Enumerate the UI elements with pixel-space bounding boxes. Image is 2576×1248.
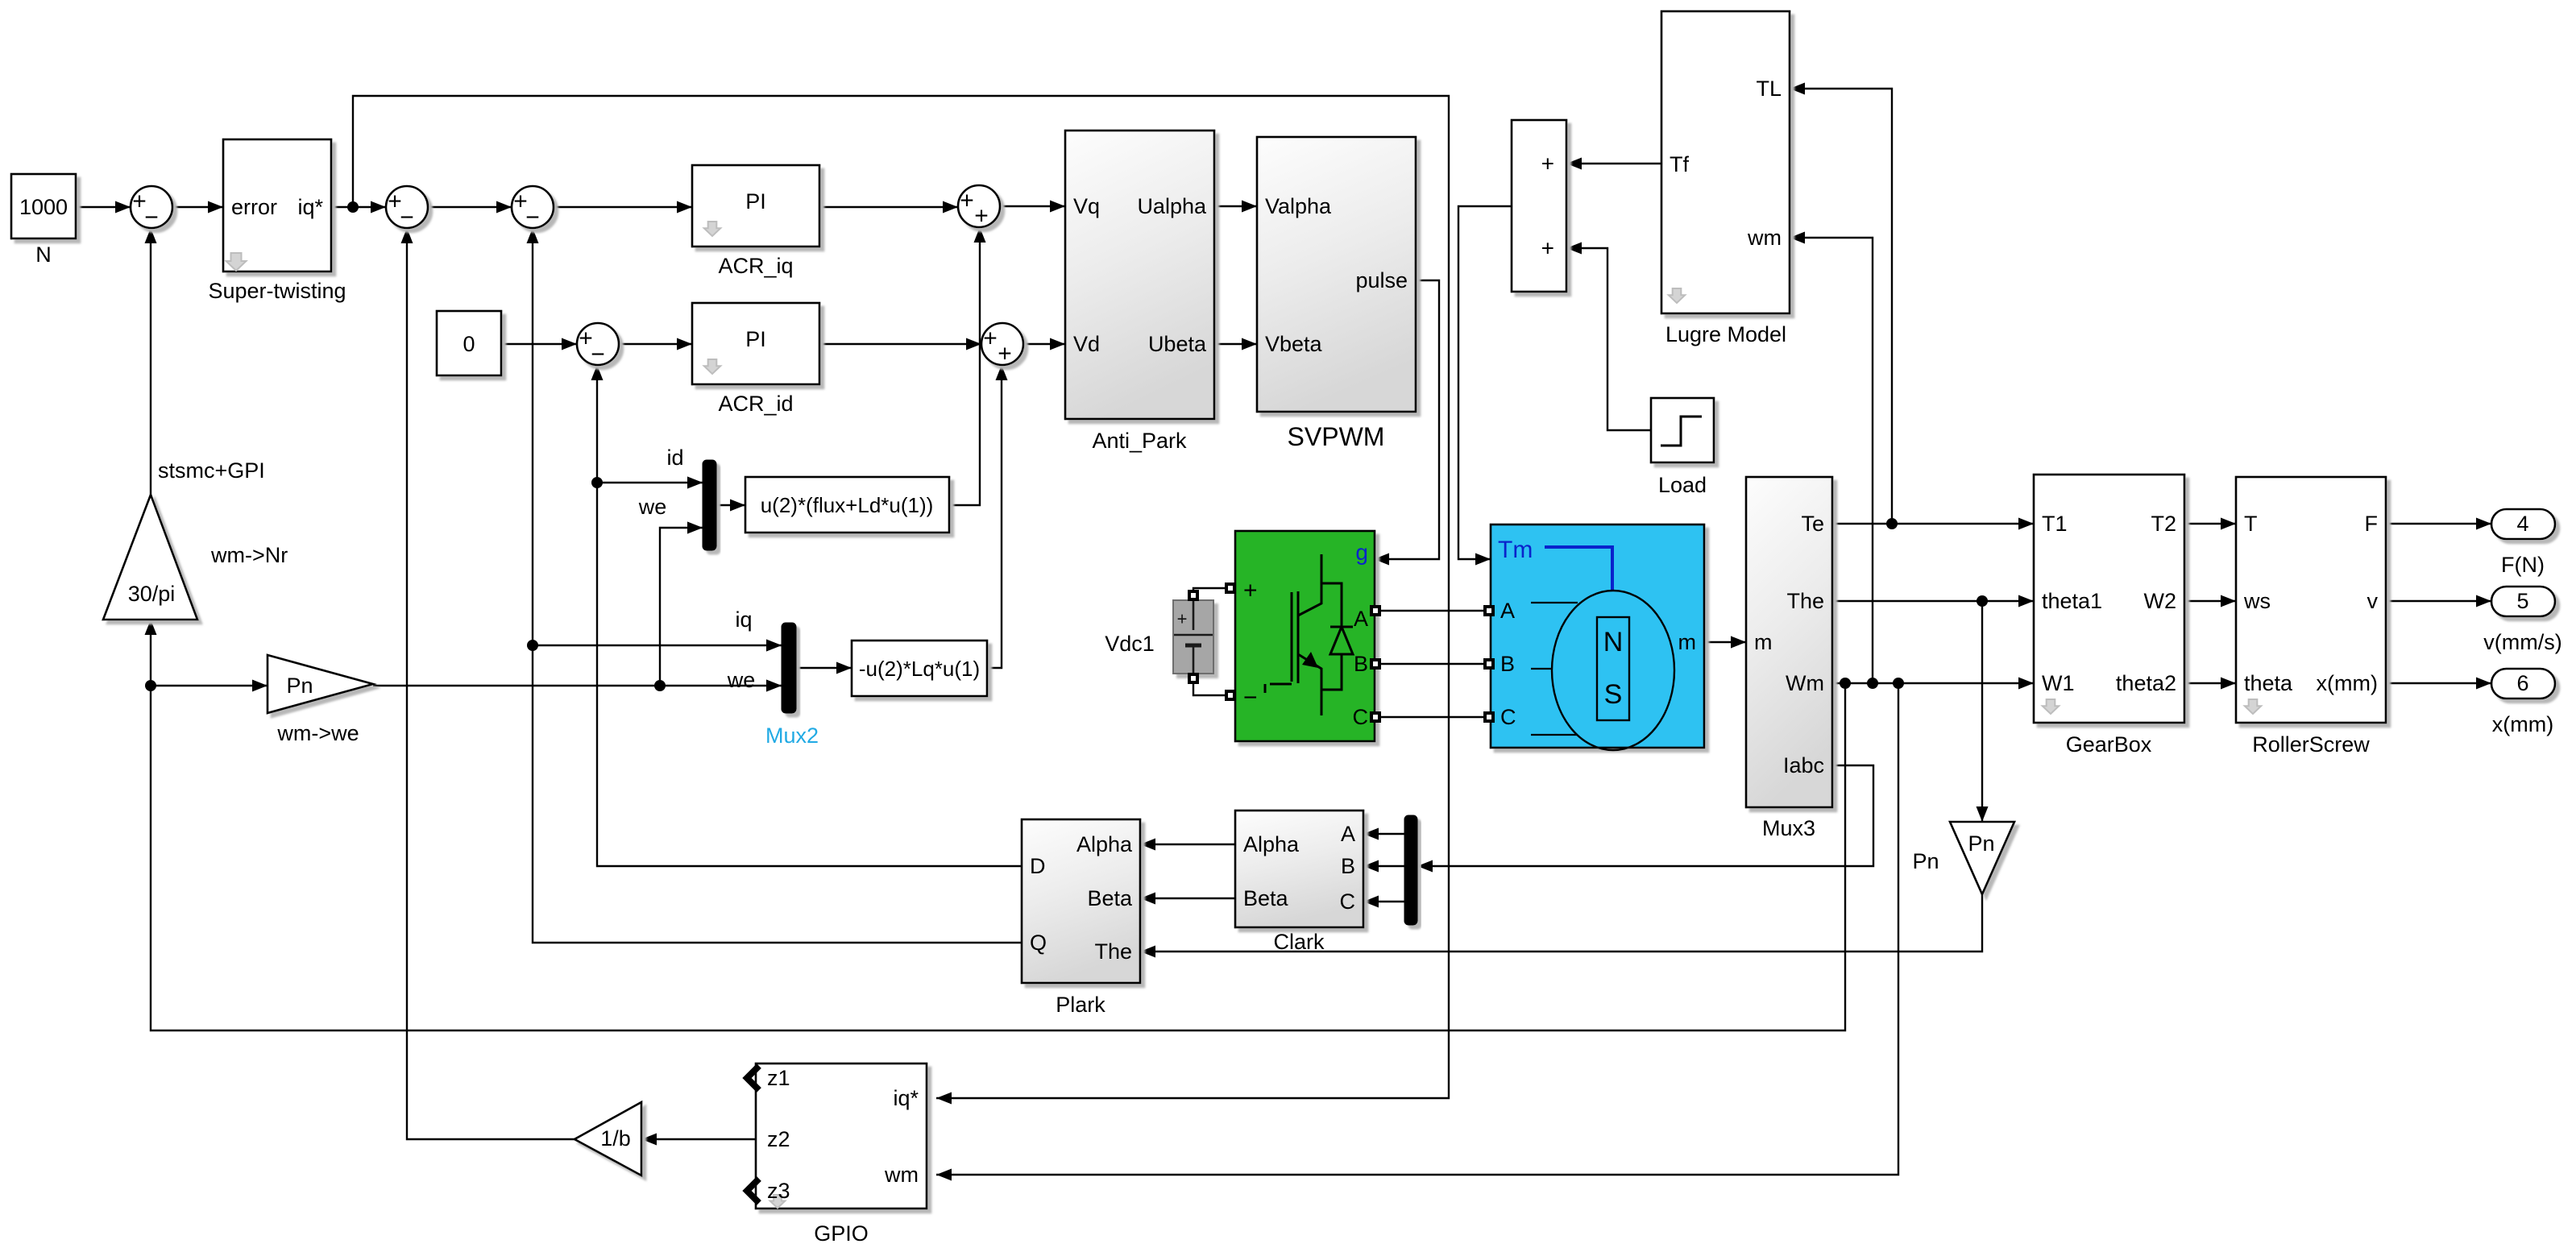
wire phase C inverter to motor [1379, 716, 1485, 718]
wire Ualpha to Valpha [1214, 205, 1257, 207]
svg-text:wm: wm [884, 1163, 919, 1187]
svg-text:theta1: theta1 [2042, 589, 2102, 613]
gain 30/pi up-pointing [103, 495, 197, 620]
svg-text:Wm: Wm [1786, 671, 1824, 695]
svg-text:Mux2: Mux2 [765, 724, 819, 748]
svg-text:F: F [2365, 512, 2379, 536]
wire const 0 to Sum4 [501, 343, 577, 345]
subsystem Clark transform [1235, 811, 1363, 927]
wire id branch to id mux [597, 482, 703, 483]
sum junction SumVq [958, 185, 1000, 227]
wire SumVd to Anti_Park Vd [1023, 343, 1065, 345]
wire RollerScrew v to outport 5 [2386, 600, 2491, 602]
svg-text:error: error [231, 195, 277, 219]
svg-text:ACR_id: ACR_id [718, 392, 793, 416]
wire GearBox T2 to RollerScrew T [2184, 523, 2236, 524]
svg-text:z3: z3 [767, 1179, 790, 1203]
wire Pn gain output down and left to Plark The [1140, 894, 1982, 952]
wire Sum3 to ACR_iq [554, 206, 692, 208]
svg-text:1000: 1000 [19, 195, 68, 219]
wire Mux3 The to GearBox theta1, node at Pn branch [1832, 600, 2034, 602]
svg-text:Pn: Pn [1968, 831, 1994, 856]
motor icon rotor ellipse with N S magnet [1545, 547, 1612, 591]
inverter port pads [1225, 583, 1236, 594]
svg-text:T1: T1 [2042, 512, 2068, 536]
wire Ubeta to Vbeta [1214, 343, 1257, 345]
svg-text:Ubeta: Ubeta [1148, 332, 1207, 356]
svg-text:wm->we: wm->we [276, 721, 359, 745]
svg-text:x(mm): x(mm) [2492, 712, 2553, 736]
gain Pn pole pairs down-pointing [1950, 822, 2014, 894]
svg-text:T2: T2 [2151, 512, 2176, 536]
wire Plark Q feedback up into Sum3 minus [533, 228, 1022, 943]
svg-text:4: 4 [2516, 512, 2528, 536]
source block Load step [1651, 398, 1714, 462]
svg-text:N: N [1603, 627, 1624, 657]
sum junction Sum2 [386, 186, 428, 228]
DC source Vdc1 battery [1193, 588, 1225, 591]
wire iq* branch up over top to GPIO iq* input [353, 96, 1449, 1098]
mux Mux3 measurement demux [1746, 477, 1832, 807]
svg-text:+: + [1541, 151, 1554, 176]
wire wm to Pn gain input, node at 187 [151, 685, 268, 686]
sum block torque adder [1512, 120, 1566, 292]
wire Sum2 to Sum3 [428, 206, 512, 208]
subsystem ACR_iq PI [692, 165, 819, 247]
svg-text:D: D [1030, 854, 1046, 878]
svg-text:iq*: iq* [297, 195, 323, 219]
demux for Iabc to Clark [1404, 815, 1417, 925]
svg-text:PI: PI [745, 327, 766, 351]
svg-text:Alpha: Alpha [1243, 832, 1300, 856]
power block PMSM motor [1491, 524, 1704, 748]
svg-text:The: The [1786, 589, 1824, 613]
svg-text:Vbeta: Vbeta [1265, 332, 1323, 356]
svg-text:TL: TL [1756, 77, 1782, 101]
wire iq branch to Mux2, node on Q feedback line [533, 645, 782, 646]
svg-text:30/pi: 30/pi [128, 582, 176, 606]
svg-text:theta: theta [2244, 671, 2293, 695]
svg-text:The: The [1094, 939, 1132, 964]
wire Clark Beta to Plark Beta [1140, 898, 1235, 899]
wire demux out B to Clark B [1363, 865, 1404, 867]
svg-text:Alpha: Alpha [1076, 832, 1133, 856]
svg-text:theta2: theta2 [2116, 671, 2176, 695]
svg-text:ws: ws [2243, 589, 2271, 613]
svg-text:+: + [974, 203, 989, 230]
wire Super-twisting iq* to Sum2, node at 438 [331, 206, 386, 208]
svg-text:Valpha: Valpha [1265, 194, 1332, 218]
svg-text:Anti_Park: Anti_Park [1092, 429, 1187, 453]
svg-text:5: 5 [2516, 589, 2528, 613]
svg-text:N: N [35, 243, 52, 267]
wire we from Pn gain to Mux2, node at 819 [373, 685, 782, 686]
subsystem GearBox [2034, 475, 2184, 723]
svg-text:−: − [144, 205, 159, 231]
subsystem SVPWM [1257, 137, 1416, 412]
outport 6 [2491, 669, 2555, 699]
subsystem Plark transform [1022, 819, 1140, 983]
svg-text:W2: W2 [2144, 589, 2177, 613]
wire Plark D feedback up into Sum4 minus, node at id branch [597, 365, 1022, 866]
wire Mux3 Te to GearBox T1 [1832, 523, 2034, 524]
svg-text:Mux3: Mux3 [1762, 816, 1815, 840]
power block universal bridge inverter [1235, 531, 1375, 741]
svg-text:S: S [1604, 679, 1623, 710]
svg-text:B: B [1341, 854, 1355, 878]
expression block u(2)*(flux+Ld*u(1)) [745, 477, 949, 533]
sum junction Sum4 [577, 323, 619, 365]
source block 0 [437, 311, 501, 375]
svg-text:Pn: Pn [1912, 849, 1939, 873]
wire Wm branch down to GPIO wm input [936, 683, 1898, 1175]
wire RollerScrew x(mm) to outport 6 [2386, 682, 2491, 684]
svg-text:1/b: 1/b [600, 1126, 631, 1151]
svg-text:ACR_iq: ACR_iq [718, 254, 793, 278]
svg-text:W1: W1 [2042, 671, 2075, 695]
svg-text:+: + [983, 325, 998, 352]
svg-text:iq: iq [735, 607, 752, 632]
subsystem RollerScrew [2236, 477, 2386, 723]
svg-text:Tm: Tm [1498, 537, 1533, 563]
svg-text:u(2)*(flux+Ld*u(1)): u(2)*(flux+Ld*u(1)) [761, 493, 934, 517]
svg-text:m: m [1754, 630, 1773, 654]
svg-text:iq*: iq* [893, 1086, 919, 1110]
svg-text:wm->Nr: wm->Nr [210, 543, 288, 567]
wire GPIO z2 to 1/b gain [641, 1138, 756, 1140]
svg-text:+: + [960, 188, 974, 214]
svg-text:−: − [400, 205, 414, 231]
wire demux out C to Clark C [1363, 901, 1404, 902]
sum junction SumVd [981, 323, 1023, 365]
svg-text:g: g [1355, 540, 1368, 565]
svg-text:-u(2)*Lq*u(1): -u(2)*Lq*u(1) [859, 657, 980, 681]
wire Sum1 to Super-twisting error [172, 206, 223, 208]
svg-text:+: + [1243, 578, 1258, 604]
wire ACR_iq PI to SumVq [819, 206, 958, 208]
wire GearBox W2 to RollerScrew ws [2184, 600, 2236, 602]
svg-text:Vq: Vq [1073, 194, 1100, 218]
svg-text:m: m [1678, 630, 1697, 654]
outport 4 [2491, 509, 2555, 539]
svg-text:A: A [1500, 599, 1515, 623]
subsystem ACR_id PI [692, 303, 819, 384]
svg-text:+: + [1177, 609, 1188, 629]
svg-text:−: − [1243, 685, 1258, 711]
motor port pads [1483, 605, 1495, 616]
wire Sum4 to ACR_id [619, 343, 692, 345]
svg-text:Iabc: Iabc [1783, 753, 1824, 777]
svg-text:Lugre Model: Lugre Model [1665, 322, 1786, 346]
svg-text:id: id [666, 446, 683, 470]
svg-text:Ualpha: Ualpha [1137, 194, 1207, 218]
svg-text:A: A [1354, 607, 1368, 631]
wire Te branch up to Lugre TL, node on Te line [1790, 89, 1892, 524]
wire 1000 to Sum1 [76, 206, 131, 208]
svg-text:GPIO: GPIO [814, 1221, 869, 1246]
wire 1/b output left and up into Sum2 minus [407, 228, 575, 1139]
svg-text:z2: z2 [767, 1127, 790, 1151]
svg-text:+: + [998, 341, 1012, 367]
svg-text:wm: wm [1747, 226, 1782, 250]
svg-text:Plark: Plark [1056, 993, 1105, 1017]
mux Mux2 for iq and we [782, 623, 796, 713]
wire SVPWM pulse to inverter g [1374, 280, 1439, 559]
wire phase B inverter to motor [1379, 663, 1485, 665]
svg-text:Super-twisting: Super-twisting [208, 279, 346, 303]
svg-text:Vd: Vd [1073, 332, 1100, 356]
svg-text:Pn: Pn [286, 674, 313, 698]
svg-text:we: we [638, 495, 667, 519]
expression block -u(2)*Lq*u(1) [852, 641, 987, 696]
svg-text:Tf: Tf [1670, 152, 1689, 176]
svg-text:pulse: pulse [1355, 268, 1408, 292]
wire flux expression output up into SumVq [949, 227, 980, 505]
wire Mux3 Iabc down and left to demux [1417, 765, 1873, 866]
wire ACR_id PI to SumVd [819, 343, 981, 345]
wire Lq expression output up into SumVd [987, 365, 1002, 668]
svg-text:−: − [525, 205, 540, 231]
svg-text:stsmc+GPI: stsmc+GPI [158, 458, 265, 483]
wire 30/pi output up to Sum1 minus input, label stsmc+GPI [150, 228, 151, 495]
wire Wm long feedback loop to left side [151, 683, 1845, 1030]
gain 1/b left-pointing [575, 1102, 641, 1175]
svg-text:Clark: Clark [1273, 930, 1325, 954]
source block 1000 [11, 174, 76, 238]
svg-text:6: 6 [2516, 671, 2528, 695]
wire SumVq to Anti_Park Vq [1000, 205, 1065, 207]
svg-text:Q: Q [1030, 931, 1047, 955]
sum junction Sum3 [512, 186, 554, 228]
svg-text:Beta: Beta [1087, 886, 1133, 910]
wire Clark Alpha to Plark Alpha [1140, 844, 1235, 845]
svg-text:PI: PI [745, 189, 766, 214]
svg-text:v(mm/s): v(mm/s) [2483, 630, 2561, 654]
svg-text:B: B [1500, 652, 1515, 676]
outport 5 [2491, 587, 2555, 616]
svg-text:GearBox: GearBox [2066, 732, 2152, 757]
svg-text:Beta: Beta [1243, 886, 1289, 910]
mux for id and we signals [703, 460, 716, 550]
svg-text:z1: z1 [767, 1066, 790, 1090]
wire RollerScrew F to outport 4 [2386, 523, 2491, 524]
svg-text:C: C [1500, 705, 1516, 729]
svg-text:SVPWM: SVPWM [1288, 422, 1385, 451]
svg-text:RollerScrew: RollerScrew [2252, 732, 2370, 757]
svg-text:B: B [1354, 652, 1368, 676]
svg-text:x(mm): x(mm) [2317, 671, 2378, 695]
subsystem GPIO observer [756, 1063, 927, 1209]
svg-text:+: + [1541, 236, 1554, 261]
wire id mux output to flux expression [716, 504, 745, 506]
wire phase A inverter to motor [1379, 610, 1485, 612]
subsystem Lugre Model [1661, 11, 1790, 313]
subsystem Anti_Park [1065, 131, 1214, 419]
svg-text:0: 0 [463, 332, 475, 356]
subsystem Super-twisting [223, 139, 331, 272]
wire Mux2 output to Lq expression [796, 667, 852, 669]
sum junction Sum1 [131, 186, 172, 228]
svg-text:Vdc1: Vdc1 [1105, 632, 1155, 656]
svg-text:A: A [1341, 822, 1355, 846]
svg-text:Te: Te [1801, 512, 1824, 536]
wire Lugre Tf to torque sum + input [1566, 163, 1661, 164]
wire motor m to Mux3 [1704, 641, 1746, 643]
wire Mux3 Wm to GearBox W1, nodes for branches [1832, 682, 2034, 684]
svg-text:C: C [1340, 889, 1356, 914]
svg-text:T: T [2244, 512, 2258, 536]
wire Wm branch up to Lugre wm, node on Wm line [1790, 238, 1873, 683]
wire wm up into 30/pi gain [150, 620, 151, 686]
wire demux out A to Clark A [1363, 833, 1404, 835]
svg-text:we: we [727, 668, 756, 692]
wire GearBox theta2 to RollerScrew theta [2184, 682, 2236, 684]
gain Pn wm to we right-pointing [268, 655, 373, 713]
svg-text:Load: Load [1658, 473, 1707, 497]
svg-text:C: C [1353, 705, 1369, 729]
inverter IGBT and diode icon [1265, 554, 1353, 715]
wire torque sum output to motor Tm [1458, 206, 1512, 559]
wire The down into Pn gain [1981, 601, 1983, 822]
svg-text:−: − [591, 342, 605, 368]
svg-text:v: v [2367, 589, 2379, 613]
wire Load step to torque sum + input [1566, 248, 1651, 430]
wire we branch up to id mux [660, 528, 703, 686]
svg-text:F(N): F(N) [2501, 553, 2545, 577]
